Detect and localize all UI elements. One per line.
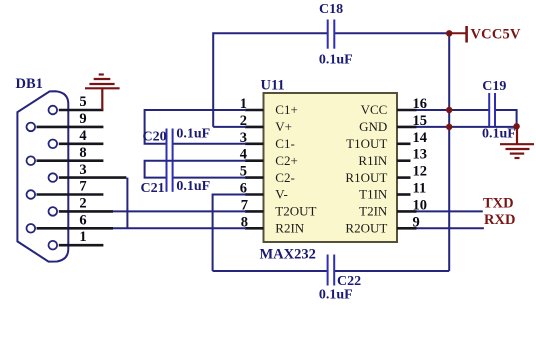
svg-text:8: 8: [79, 145, 86, 161]
svg-text:0.1uF: 0.1uF: [176, 127, 210, 142]
svg-text:12: 12: [413, 164, 428, 180]
svg-text:RXD: RXD: [484, 212, 515, 228]
svg-text:2: 2: [79, 196, 86, 212]
svg-text:R2OUT: R2OUT: [345, 221, 387, 236]
svg-text:0.1uF: 0.1uF: [482, 127, 516, 142]
svg-text:VCC: VCC: [361, 102, 388, 117]
svg-text:7: 7: [79, 179, 86, 195]
svg-text:R1IN: R1IN: [358, 153, 388, 168]
svg-text:6: 6: [79, 213, 86, 229]
svg-text:0.1uF: 0.1uF: [319, 53, 353, 68]
svg-text:C2+: C2+: [275, 153, 298, 168]
svg-text:C19: C19: [482, 79, 506, 94]
svg-text:0.1uF: 0.1uF: [319, 288, 353, 303]
svg-text:R2IN: R2IN: [275, 221, 305, 236]
svg-text:T2OUT: T2OUT: [275, 204, 316, 219]
svg-text:13: 13: [413, 147, 428, 163]
svg-text:1: 1: [79, 229, 86, 245]
svg-text:9: 9: [79, 111, 86, 127]
svg-text:T1OUT: T1OUT: [346, 136, 387, 151]
svg-text:V+: V+: [275, 119, 292, 134]
svg-text:4: 4: [79, 128, 86, 144]
svg-text:3: 3: [79, 162, 86, 178]
svg-text:DB1: DB1: [16, 76, 43, 92]
svg-text:11: 11: [413, 181, 427, 197]
svg-text:GND: GND: [359, 119, 387, 134]
svg-text:5: 5: [79, 94, 86, 110]
svg-text:C21: C21: [141, 181, 165, 196]
svg-text:C1-: C1-: [275, 136, 295, 151]
svg-text:T2IN: T2IN: [359, 204, 388, 219]
svg-text:14: 14: [413, 130, 428, 146]
svg-text:C20: C20: [143, 130, 167, 145]
svg-text:MAX232: MAX232: [260, 246, 316, 262]
svg-text:V-: V-: [275, 187, 288, 202]
svg-text:C18: C18: [319, 2, 343, 17]
svg-text:C2-: C2-: [275, 170, 295, 185]
svg-text:VCC5V: VCC5V: [471, 27, 521, 43]
svg-text:0.1uF: 0.1uF: [176, 179, 210, 194]
svg-text:T1IN: T1IN: [359, 187, 388, 202]
svg-text:C1+: C1+: [275, 102, 298, 117]
svg-text:R1OUT: R1OUT: [345, 170, 387, 185]
svg-text:U11: U11: [261, 78, 285, 94]
svg-text:TXD: TXD: [483, 196, 514, 212]
